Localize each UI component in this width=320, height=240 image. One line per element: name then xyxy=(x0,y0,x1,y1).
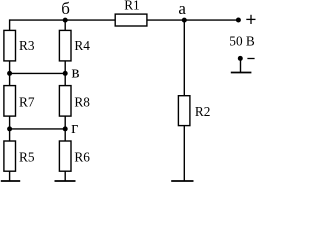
svg-text:R1: R1 xyxy=(124,0,140,13)
svg-text:R2: R2 xyxy=(195,104,211,119)
svg-text:в: в xyxy=(72,63,80,82)
svg-text:R7: R7 xyxy=(19,94,35,109)
svg-text:50 В: 50 В xyxy=(229,34,255,49)
svg-text:а: а xyxy=(178,0,186,18)
svg-text:R8: R8 xyxy=(74,94,90,109)
svg-text:R4: R4 xyxy=(74,38,90,53)
svg-text:R5: R5 xyxy=(19,150,35,165)
svg-text:R3: R3 xyxy=(19,38,35,53)
svg-text:г: г xyxy=(71,118,78,137)
svg-text:б: б xyxy=(61,0,70,18)
svg-text:R6: R6 xyxy=(74,150,90,165)
